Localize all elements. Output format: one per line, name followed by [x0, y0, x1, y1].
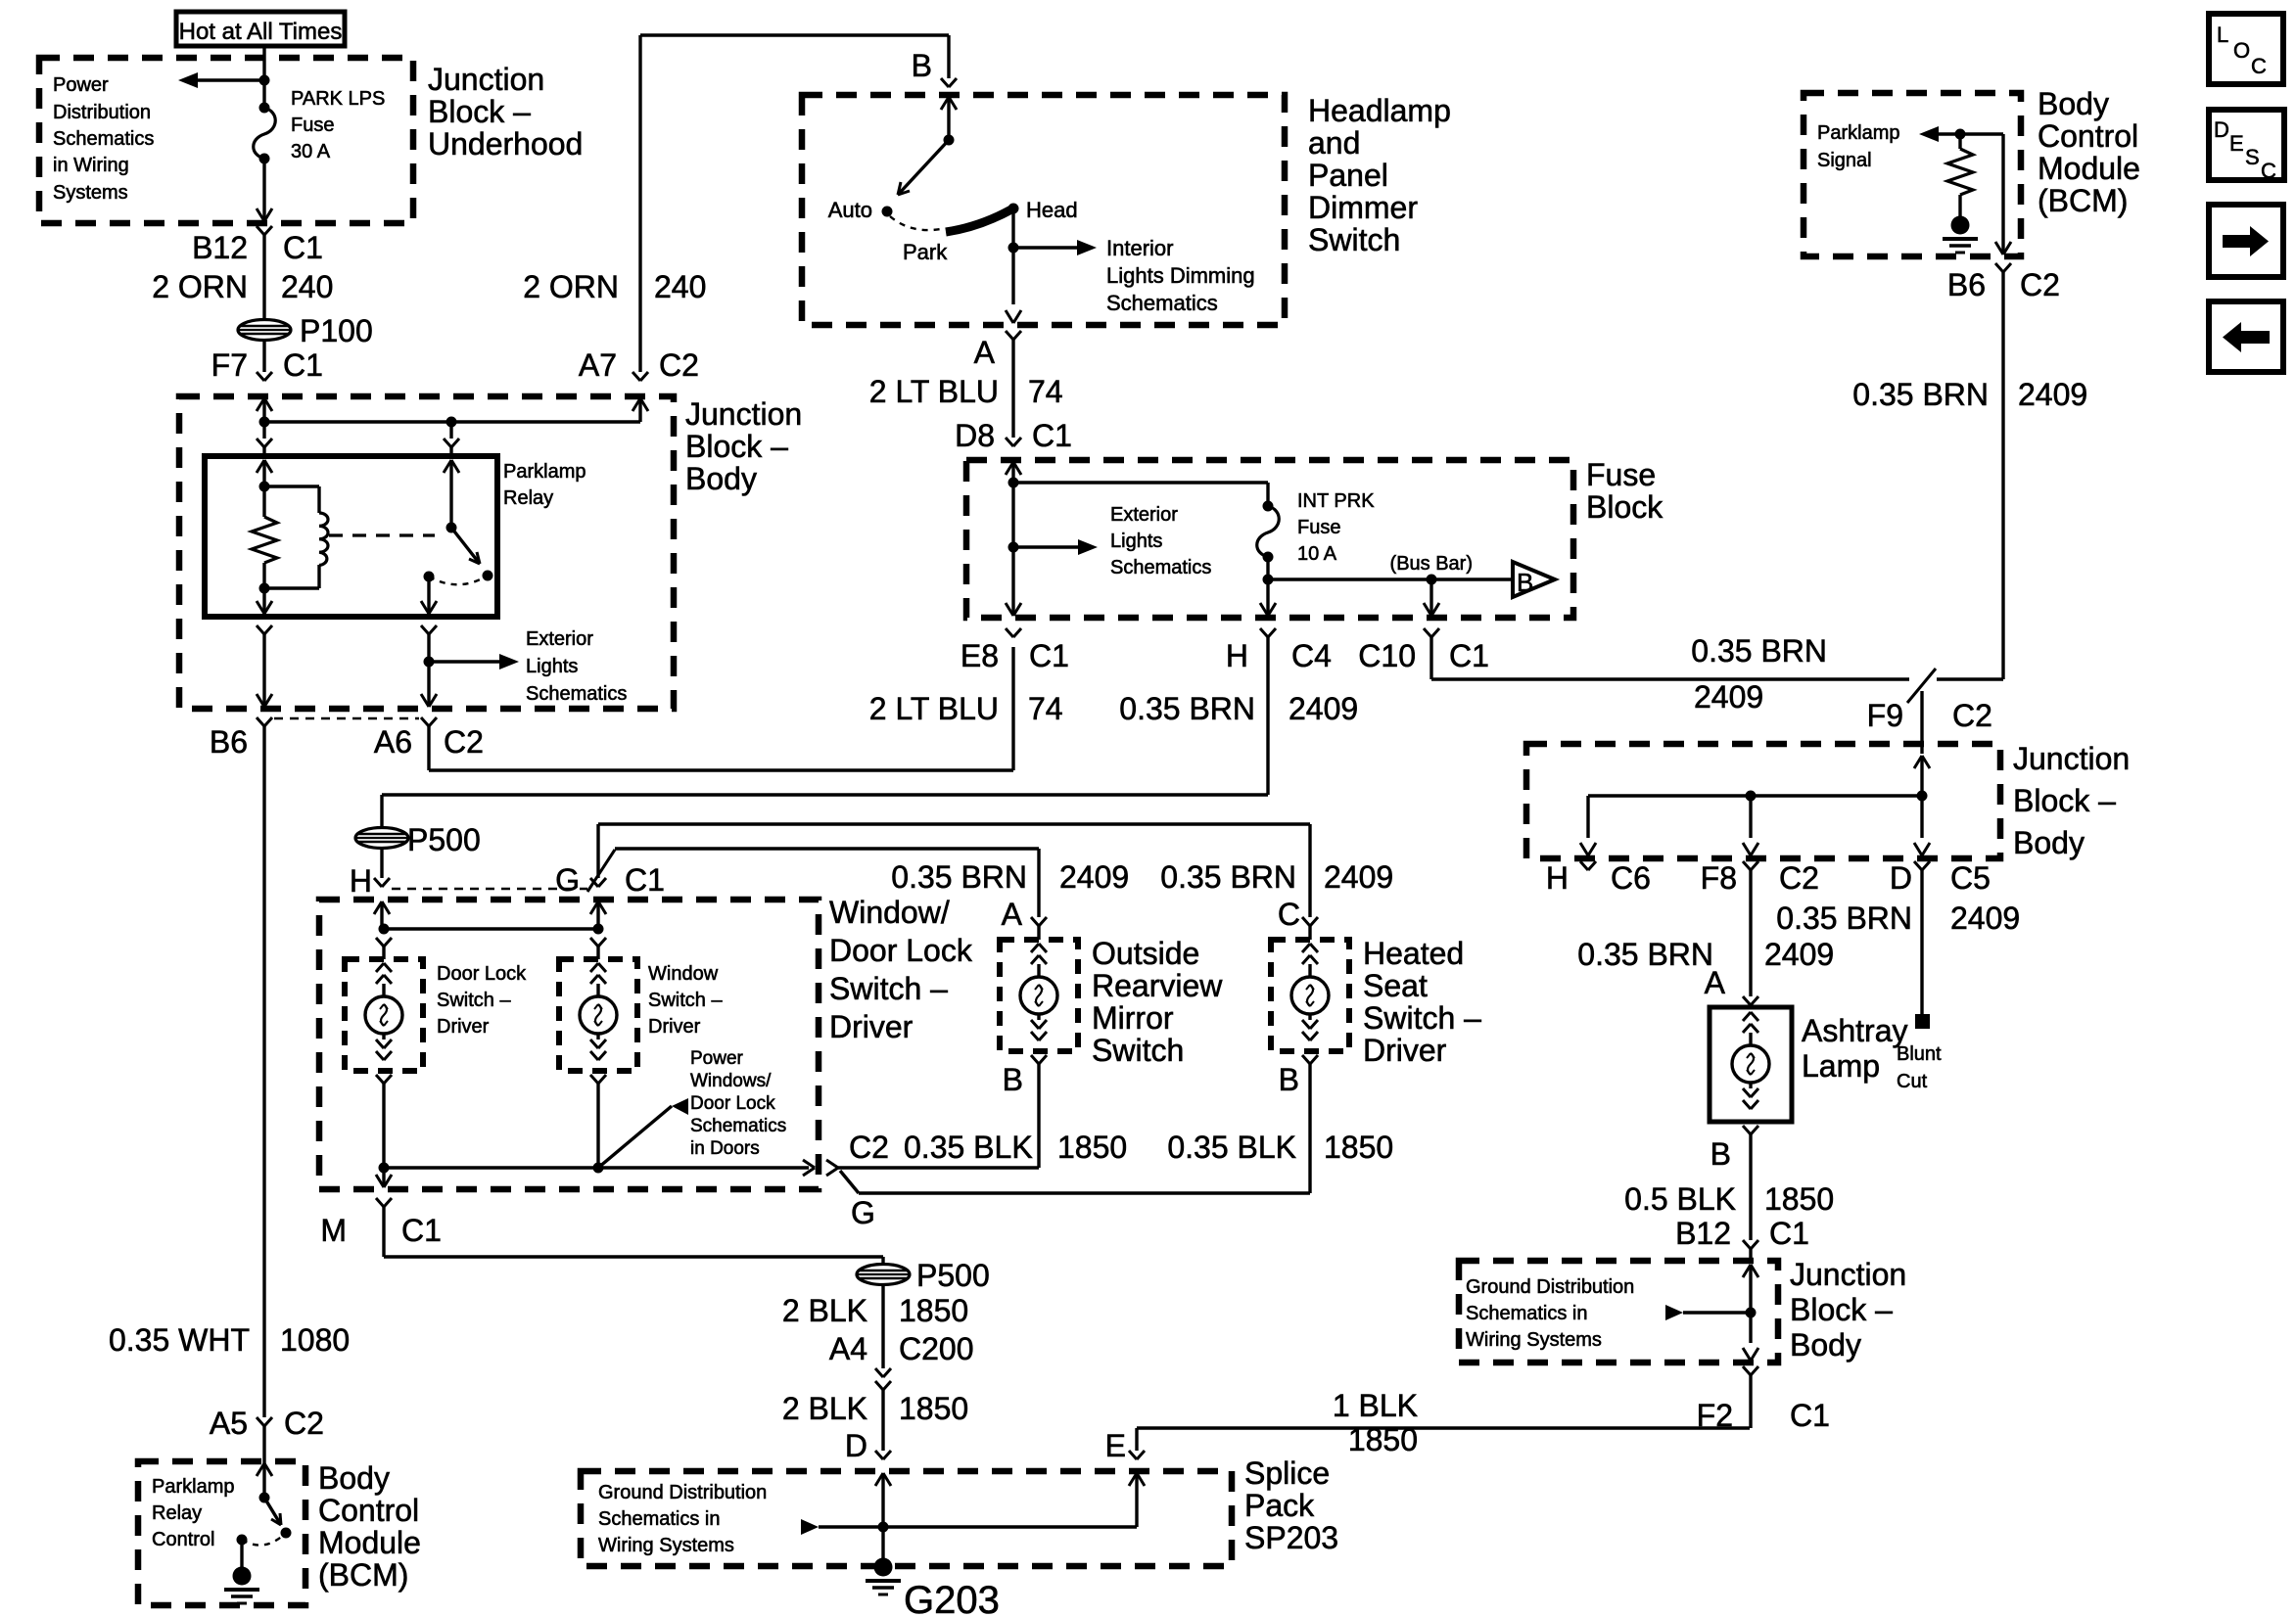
svg-text:B12: B12	[192, 230, 248, 265]
junction dot left	[259, 417, 270, 428]
svg-text:2 LT BLU: 2 LT BLU	[869, 374, 999, 409]
arrow to Interior Lights Dimming Schematics	[1013, 246, 1081, 249]
wire to mirror switch B	[838, 1166, 1039, 1169]
svg-text:Fuse: Fuse	[1586, 457, 1656, 492]
svg-text:A5: A5	[210, 1406, 248, 1441]
relay switch input wire	[444, 460, 451, 473]
wire fuse to box edge	[262, 159, 265, 221]
arrow from Ground Distribution	[1683, 1311, 1751, 1314]
svg-text:Module: Module	[2038, 151, 2140, 186]
svg-text:A: A	[1705, 965, 1726, 1000]
wire from Hot at All Times into junction block	[262, 45, 265, 108]
svg-text:Door Lock: Door Lock	[829, 933, 973, 968]
svg-text:1 BLK: 1 BLK	[1333, 1388, 1418, 1423]
svg-text:Control: Control	[318, 1493, 419, 1528]
svg-text:C1: C1	[1029, 638, 1069, 673]
svg-text:M: M	[320, 1213, 347, 1248]
svg-text:Block –: Block –	[428, 94, 531, 129]
wire G riser	[596, 824, 599, 878]
svg-text:E: E	[1105, 1428, 1126, 1463]
svg-text:2 ORN: 2 ORN	[523, 269, 619, 304]
svg-text:Windows/: Windows/	[690, 1071, 772, 1091]
svg-text:C2: C2	[284, 1406, 324, 1441]
svg-text:C2: C2	[2020, 267, 2060, 302]
svg-text:E8: E8	[961, 638, 999, 673]
BCM switch travel arc	[242, 1533, 286, 1546]
connector chevron A5/C2	[257, 1417, 264, 1426]
svg-text:Power: Power	[53, 74, 109, 96]
wire B6 down to F9	[2001, 272, 2004, 679]
svg-text:2409: 2409	[1324, 859, 1393, 895]
splice entry arrow D	[875, 1473, 883, 1486]
svg-text:B: B	[1003, 1062, 1023, 1097]
svg-text:C: C	[2251, 54, 2267, 78]
svg-text:B12: B12	[1675, 1216, 1731, 1251]
svg-text:A4: A4	[829, 1331, 867, 1366]
svg-text:in Wiring: in Wiring	[53, 155, 129, 176]
wire top run A7 to B	[640, 33, 949, 36]
chevron below window switch	[590, 1075, 598, 1084]
relay resistor	[262, 486, 265, 517]
svg-text:Body: Body	[318, 1460, 390, 1496]
svg-text:Body: Body	[2038, 86, 2109, 121]
svg-text:Heated: Heated	[1363, 936, 1464, 971]
svg-text:0.35 BRN: 0.35 BRN	[1691, 633, 1827, 669]
forward arrow icon	[2209, 205, 2283, 277]
connector face dashed line H-G	[392, 888, 587, 890]
svg-text:Underhood: Underhood	[428, 126, 583, 162]
svg-text:Ground Distribution: Ground Distribution	[598, 1482, 767, 1503]
svg-text:Seat: Seat	[1363, 968, 1428, 1003]
svg-text:Pack: Pack	[1244, 1488, 1315, 1523]
svg-text:F8: F8	[1701, 860, 1737, 896]
Junction Block - Body bottom dashed box	[1459, 1261, 1778, 1363]
svg-text:G203: G203	[904, 1579, 1000, 1617]
svg-text:Schematics: Schematics	[690, 1116, 786, 1136]
svg-text:Cut: Cut	[1897, 1071, 1928, 1092]
svg-text:Door Lock: Door Lock	[437, 963, 527, 985]
relay coil	[264, 485, 319, 487]
svg-text:Lights Dimming: Lights Dimming	[1106, 263, 1255, 288]
svg-text:0.35 BRN: 0.35 BRN	[1119, 691, 1255, 726]
splice entry arrow E	[1129, 1473, 1137, 1486]
blunt cut terminal	[1915, 1014, 1930, 1029]
fuse block internal wire	[1011, 483, 1014, 547]
wire A5 into BCM	[262, 1426, 265, 1463]
wire H down to P500 run	[1266, 637, 1269, 795]
svg-text:Hot at All Times: Hot at All Times	[179, 19, 343, 45]
svg-text:Park: Park	[903, 240, 948, 264]
svg-text:1850: 1850	[899, 1293, 968, 1328]
svg-text:PARK LPS: PARK LPS	[291, 88, 385, 110]
wire into junction block F9	[1920, 691, 1923, 754]
entry arrow F9	[1914, 756, 1922, 768]
svg-text:Power: Power	[690, 1048, 744, 1069]
svg-text:Schematics in: Schematics in	[1466, 1303, 1588, 1324]
svg-text:Block –: Block –	[1790, 1292, 1893, 1327]
chevron door lock switch feed	[376, 938, 384, 947]
svg-text:B6: B6	[1947, 267, 1986, 302]
mirror switch illumination lamp	[1031, 944, 1039, 952]
dimmer selector blade to Auto	[898, 140, 949, 195]
svg-text:Module: Module	[318, 1525, 421, 1560]
BCM internal corner wire	[2001, 134, 2004, 254]
connector chevron A6	[421, 717, 429, 726]
svg-text:B: B	[1710, 1136, 1731, 1172]
Hot at All Times box	[176, 12, 345, 46]
dimmer pivot dot	[944, 135, 955, 146]
Heated Seat Switch - Driver dashed box	[1271, 940, 1349, 1051]
svg-text:in Doors: in Doors	[690, 1138, 760, 1159]
BCM switch moving contact	[281, 1528, 292, 1539]
wire to A6 exit	[427, 662, 430, 707]
svg-text:2409: 2409	[1059, 859, 1129, 895]
svg-text:Control: Control	[152, 1529, 214, 1550]
svg-text:A: A	[1002, 897, 1023, 932]
svg-text:2409: 2409	[1289, 691, 1358, 726]
window box exit arrow C2	[803, 1160, 815, 1168]
svg-text:S: S	[2245, 145, 2260, 169]
relay coil dashed actuation line	[329, 533, 435, 536]
svg-text:Rearview: Rearview	[1092, 968, 1223, 1003]
svg-text:A: A	[974, 335, 996, 370]
wire H/C6 exit	[1586, 796, 1589, 838]
connector chevron F8/C2	[1743, 861, 1751, 870]
svg-text:Parklamp: Parklamp	[1817, 122, 1899, 144]
connector P500 upper	[355, 828, 408, 849]
Door Lock Switch - Driver dashed box	[345, 959, 423, 1071]
svg-text:Switch –: Switch –	[1363, 1000, 1481, 1036]
svg-text:Window: Window	[648, 963, 719, 985]
svg-text:74: 74	[1028, 691, 1063, 726]
relay node top	[259, 482, 270, 492]
svg-text:C4: C4	[1291, 638, 1332, 673]
svg-text:C: C	[1278, 897, 1300, 932]
arrow Parklamp Signal	[1937, 132, 2003, 135]
svg-text:0.35 BLK: 0.35 BLK	[904, 1130, 1033, 1165]
connector chevron E8/C1	[1006, 628, 1013, 637]
junction dot interior lights	[1008, 243, 1019, 254]
svg-text:240: 240	[654, 269, 706, 304]
chevron below door lock switch	[376, 1075, 384, 1084]
dimmer exit arrow A	[1006, 310, 1013, 323]
junction dot	[259, 75, 270, 86]
fuse output dot	[1263, 575, 1274, 585]
svg-text:Lights: Lights	[1110, 531, 1162, 552]
svg-text:Switch: Switch	[1308, 222, 1400, 257]
connector C2 chevron	[826, 1160, 838, 1168]
connector chevron D8/C1	[1006, 438, 1013, 446]
svg-text:1850: 1850	[1764, 1181, 1834, 1217]
svg-text:Dimmer: Dimmer	[1308, 190, 1418, 225]
relay switch fixed contact	[424, 572, 435, 582]
exit arrow F2	[1743, 1348, 1751, 1361]
svg-text:Headlamp: Headlamp	[1308, 93, 1451, 128]
wire bus to relay coil side	[262, 422, 265, 439]
svg-text:(BCM): (BCM)	[2038, 183, 2128, 218]
svg-text:P500: P500	[916, 1258, 990, 1293]
connector chevron A7	[633, 372, 640, 381]
BCM exit arrow B6	[1995, 242, 2003, 254]
connector P500 lower	[857, 1265, 910, 1285]
svg-text:Systems: Systems	[53, 182, 128, 204]
BCM resistor node dot	[1955, 129, 1966, 140]
wire F8 exit	[1749, 796, 1752, 838]
Fuse Block dashed box	[966, 460, 1573, 618]
wire A6 down and right to E8	[427, 726, 430, 770]
connector chevron D splice	[875, 1451, 883, 1459]
svg-text:1850: 1850	[1057, 1130, 1127, 1165]
wire Head down	[1011, 208, 1014, 304]
svg-text:0.35 BRN: 0.35 BRN	[1577, 937, 1713, 972]
connector face dashed line B6-A6	[274, 717, 419, 719]
internal bus wire	[264, 420, 640, 423]
wire bus to relay switch side	[449, 422, 452, 439]
svg-text:Interior: Interior	[1106, 236, 1173, 260]
wire to blunt cut	[1920, 870, 1923, 1014]
Junction Block - Body dashed box	[179, 396, 674, 709]
svg-text:Schematics: Schematics	[53, 128, 154, 150]
svg-text:Junction: Junction	[2013, 741, 2130, 776]
svg-text:Junction: Junction	[685, 396, 802, 432]
arrow to Exterior Lights Schematics	[429, 660, 503, 663]
svg-text:D: D	[1890, 860, 1912, 896]
wire to P100	[262, 235, 265, 320]
wire G to heated seat C run	[598, 822, 1310, 825]
connector chevron F7/C1	[257, 372, 264, 381]
connector chevron M/C1	[376, 1198, 384, 1207]
Head contact dot	[1008, 204, 1019, 214]
connector chevron A ashtray	[1743, 996, 1751, 1005]
svg-text:0.35 BRN: 0.35 BRN	[1852, 377, 1989, 412]
door lock illumination lamp	[376, 963, 384, 972]
svg-text:H: H	[1546, 860, 1569, 896]
fuse output wire	[1266, 557, 1269, 579]
svg-text:Fuse: Fuse	[1297, 517, 1340, 538]
wire C10 down to F9 run	[1429, 637, 1432, 679]
connector F9 slash	[1907, 669, 1936, 703]
svg-text:1850: 1850	[1348, 1422, 1418, 1457]
Splice Pack SP203 dashed box	[581, 1471, 1232, 1566]
window box bottom bus	[384, 1166, 809, 1169]
Window Switch - Driver dashed box	[559, 959, 637, 1071]
wire C10 exit	[1429, 579, 1432, 616]
svg-text:Block –: Block –	[685, 429, 788, 464]
window box exit arrow M	[382, 1168, 385, 1187]
relay coil input arrow	[257, 460, 264, 473]
wire E8 exit	[1011, 547, 1014, 616]
svg-text:P500: P500	[407, 822, 481, 857]
junction dot	[1008, 478, 1019, 488]
junction dot exterior lights branch	[424, 657, 435, 668]
heated seat switch illumination lamp	[1302, 944, 1310, 952]
connector chevron A	[1031, 917, 1039, 926]
BCM ground	[233, 1567, 252, 1586]
svg-text:Ashtray: Ashtray	[1802, 1013, 1907, 1048]
chevron below mirror switch	[1031, 1055, 1039, 1064]
svg-text:Driver: Driver	[648, 1016, 701, 1038]
svg-text:Body: Body	[2013, 825, 2085, 860]
wire P500 to C200	[881, 1284, 884, 1368]
connector chevron G	[590, 878, 598, 887]
BCM entry arrow A5	[257, 1463, 264, 1476]
connector chevron B12/C1 bottom	[1743, 1240, 1751, 1249]
svg-text:Schematics: Schematics	[1106, 291, 1218, 315]
svg-text:Switch –: Switch –	[829, 971, 948, 1006]
svg-text:C6: C6	[1611, 860, 1651, 896]
svg-text:C1: C1	[625, 862, 665, 898]
Window/Door Lock Switch - Driver dashed box	[319, 900, 819, 1189]
LOC icon	[2209, 14, 2283, 84]
wire F2 down to splice run	[1749, 1375, 1752, 1428]
svg-text:2 BLK: 2 BLK	[782, 1391, 867, 1426]
connector chevron F2/C1	[1743, 1366, 1751, 1375]
svg-text:A7: A7	[579, 347, 617, 383]
svg-text:Driver: Driver	[829, 1009, 914, 1044]
svg-text:Lamp: Lamp	[1802, 1048, 1880, 1084]
relay switch pivot	[446, 523, 457, 533]
entry arrow B12	[1743, 1265, 1751, 1277]
right junction bus	[1588, 794, 1922, 797]
Headlamp and Panel Dimmer Switch dashed box	[802, 95, 1285, 325]
svg-text:C1: C1	[401, 1213, 442, 1248]
svg-text:Window/: Window/	[829, 895, 950, 930]
splice junction dot	[878, 1522, 889, 1533]
relay coil output wire	[262, 588, 265, 614]
BCM internal ground	[1951, 216, 1970, 235]
svg-text:2409: 2409	[1950, 901, 2020, 936]
wire P500 to H	[380, 848, 383, 878]
junction dot right	[446, 417, 457, 428]
svg-text:0.35 BRN: 0.35 BRN	[1160, 859, 1296, 895]
svg-text:Relay: Relay	[503, 487, 553, 509]
ashtray lamp element	[1743, 1012, 1751, 1021]
relay switch output wire	[427, 577, 430, 614]
relay switch moving contact	[483, 571, 493, 581]
svg-text:Outside: Outside	[1092, 936, 1199, 971]
relay switch travel arc	[429, 576, 488, 584]
connector chevron B	[941, 78, 949, 87]
svg-text:E: E	[2229, 131, 2244, 156]
svg-text:Door Lock: Door Lock	[690, 1093, 775, 1114]
BCM switch blade	[264, 1498, 281, 1525]
svg-text:C2: C2	[1952, 698, 1992, 733]
svg-text:2409: 2409	[2018, 377, 2087, 412]
BCM switch pivot dot	[259, 1493, 270, 1503]
wire P100 to F7	[262, 341, 265, 372]
wire to heated seat B	[840, 1171, 859, 1193]
svg-text:Switch: Switch	[1092, 1033, 1184, 1068]
svg-text:C1: C1	[1449, 638, 1489, 673]
window box entry arrow G	[590, 901, 598, 914]
entry arrow F7	[257, 398, 264, 411]
wire B12 into junction block	[1749, 1249, 1752, 1263]
svg-text:C1: C1	[283, 230, 323, 265]
wire F8 to ashtray	[1749, 870, 1752, 996]
svg-text:Head: Head	[1026, 198, 1078, 222]
svg-text:O: O	[2233, 38, 2250, 63]
relay node bottom	[259, 583, 270, 594]
svg-text:Junction: Junction	[1790, 1257, 1906, 1292]
svg-text:C2: C2	[849, 1130, 889, 1165]
svg-text:0.35 BLK: 0.35 BLK	[1167, 1130, 1296, 1165]
connector chevron D/C5	[1914, 861, 1922, 870]
Body Control Module dashed box	[1804, 93, 2021, 256]
svg-text:0.35 WHT: 0.35 WHT	[109, 1322, 250, 1358]
svg-text:10 A: 10 A	[1297, 543, 1337, 565]
bus to INT PRK fuse	[1013, 481, 1268, 484]
svg-text:H: H	[350, 863, 372, 899]
wire B6 long run down	[262, 726, 265, 1417]
connector chevron H/C6	[1580, 861, 1588, 870]
arrow to Exterior Lights Schematics	[1013, 545, 1082, 548]
Auto contact dot	[882, 207, 893, 217]
chevron below ashtray	[1743, 1126, 1751, 1134]
svg-text:Junction: Junction	[428, 62, 544, 97]
svg-text:240: 240	[281, 269, 333, 304]
svg-text:Ground Distribution: Ground Distribution	[1466, 1276, 1634, 1298]
wire to B6 exit	[262, 687, 265, 707]
connector G slash	[587, 850, 615, 892]
Parklamp Relay box	[205, 456, 497, 617]
svg-text:2409: 2409	[1764, 937, 1834, 972]
ground G203	[874, 1558, 893, 1577]
dimmer entry arrow	[941, 97, 949, 110]
svg-text:Wiring Systems: Wiring Systems	[598, 1535, 734, 1556]
svg-text:(Bus Bar): (Bus Bar)	[1390, 553, 1473, 575]
svg-text:F7: F7	[211, 347, 248, 383]
svg-text:Body: Body	[685, 461, 757, 496]
connector chevron E	[1129, 1451, 1137, 1459]
dimmer travel dashed arc	[890, 216, 941, 230]
connector chevron C	[1302, 917, 1310, 926]
svg-text:C10: C10	[1358, 638, 1416, 673]
wire G to mirror A run	[615, 847, 1039, 850]
BCM pull resistor	[1958, 134, 1961, 149]
svg-text:C5: C5	[1950, 860, 1991, 896]
bus bar wire	[1268, 577, 1513, 580]
Body Control Module bottom dashed box	[138, 1461, 305, 1605]
svg-text:F2: F2	[1697, 1398, 1733, 1433]
svg-text:Mirror: Mirror	[1092, 1000, 1174, 1036]
svg-text:Splice: Splice	[1244, 1455, 1330, 1491]
Outside Rearview Mirror Switch dashed box	[1000, 940, 1078, 1051]
svg-text:INT PRK: INT PRK	[1297, 490, 1375, 512]
svg-text:1850: 1850	[1324, 1130, 1393, 1165]
svg-text:F9: F9	[1867, 698, 1903, 733]
svg-text:2 LT BLU: 2 LT BLU	[869, 691, 999, 726]
svg-text:H: H	[1226, 638, 1248, 673]
svg-text:B6: B6	[210, 724, 248, 760]
BCM ground wire	[240, 1540, 243, 1567]
svg-text:B: B	[1517, 568, 1533, 597]
connector chevron H	[374, 878, 382, 887]
connector P100	[238, 320, 291, 341]
svg-text:2409: 2409	[1694, 679, 1763, 715]
chevron below heated seat switch	[1302, 1055, 1310, 1064]
svg-text:A6: A6	[374, 724, 412, 760]
svg-text:Schematics: Schematics	[1110, 557, 1211, 578]
svg-text:Exterior: Exterior	[1110, 504, 1178, 526]
connector chevron below relay right	[421, 625, 429, 634]
branch to Power Windows Door Lock Schematics	[598, 1106, 672, 1168]
Junction Block - Underhood dashed box	[39, 58, 413, 223]
splice bus wire	[819, 1525, 1137, 1528]
connector chevron B12/C1	[257, 226, 264, 235]
svg-text:Body: Body	[1790, 1327, 1861, 1363]
INT PRK fuse element	[1263, 501, 1274, 512]
svg-text:G: G	[851, 1195, 875, 1230]
